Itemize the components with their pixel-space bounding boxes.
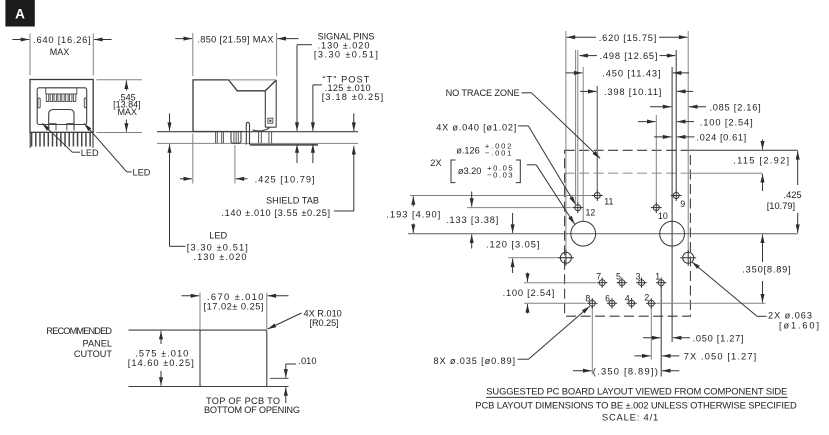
svg-text:.100 [2.54]: .100 [2.54]: [503, 288, 555, 298]
svg-text:.640 [16.26]: .640 [16.26]: [33, 35, 90, 45]
side view: signal pin cup: [231, 132, 241, 144]
layout: mounting hole left: [571, 221, 596, 246]
layout: pads 7 5 3 1: [599, 280, 605, 286]
front view: jack outer body: [30, 80, 93, 133]
side view: latch detail square: [268, 118, 273, 123]
panel cutout: panel surface lines: [129, 329, 201, 331]
svg-text:4: 4: [625, 294, 630, 304]
side view: dim .425 [10.79]: [192, 134, 194, 184]
layout: dim .133 [3.38]: [471, 192, 473, 207]
panel cutout: cutout square: [200, 330, 267, 386]
svg-text:[ø1.60]: [ø1.60]: [779, 321, 819, 331]
svg-text:.024 [0.61]: .024 [0.61]: [696, 133, 746, 143]
svg-text:.398 [10.11]: .398 [10.11]: [604, 87, 661, 97]
svg-text:MAX: MAX: [117, 107, 137, 117]
svg-text:.425 [10.79]: .425 [10.79]: [255, 174, 315, 184]
layout: dim .450 [11.43]: [566, 72, 583, 74]
svg-text:2X ø.063: 2X ø.063: [768, 310, 812, 320]
svg-text:[10.79]: [10.79]: [767, 201, 795, 211]
layout: dim .100 [2.54] pin rows: [527, 273, 529, 282]
panel cutout: dim .670 width: [199, 293, 201, 330]
layout: dim .350 [8.89]: [762, 235, 764, 263]
svg-text:LED: LED: [81, 148, 99, 158]
svg-text:SHIELD TAB: SHIELD TAB: [266, 196, 319, 206]
svg-text:.575 ±.010: .575 ±.010: [135, 348, 188, 358]
svg-text:.450 [11.43]: .450 [11.43]: [602, 69, 660, 79]
svg-text:SUGGESTED PC BOARD LAYOUT VIEW: SUGGESTED PC BOARD LAYOUT VIEWED FROM CO…: [486, 385, 787, 396]
layout: extension verticals: [565, 31, 567, 252]
front view: jack opening: [37, 88, 86, 125]
svg-text:−.001: −.001: [485, 148, 512, 157]
layout: dim .024 [0.61]: [654, 136, 671, 138]
layout: extension horizontals: [410, 195, 592, 197]
layout: dim .050 [1.27]: [643, 337, 660, 339]
svg-text:12: 12: [586, 207, 596, 217]
side view: shield tab hook: [253, 127, 270, 131]
svg-text:.425: .425: [784, 190, 802, 200]
front view: left LED leader and label: [42, 123, 72, 152]
layout: pad 10: [653, 205, 659, 211]
front view: contact comb: [46, 88, 77, 94]
svg-text:.193 [4.90]: .193 [4.90]: [386, 209, 440, 219]
side view: PCB top line: [157, 131, 358, 133]
svg-text:2: 2: [644, 292, 649, 302]
svg-text:PANEL: PANEL: [83, 339, 112, 349]
layout: dim .120 [3.05]: [512, 213, 514, 233]
side view: LED leads through PCB: [216, 132, 224, 144]
svg-text:.085 [2.16]: .085 [2.16]: [709, 102, 760, 112]
svg-text:A: A: [15, 7, 25, 22]
layout: dim .115 [2.92]: [762, 140, 764, 150]
svg-text:NO TRACE ZONE: NO TRACE ZONE: [446, 88, 520, 98]
svg-text:MAX: MAX: [50, 47, 70, 57]
front view: dim .545 [13.84] MAX height: [96, 79, 141, 81]
front view: right LED leader and label: [84, 123, 127, 171]
layout: dim (.350 [8.89]): [573, 370, 592, 372]
layout: no trace zone inner dashed line: [565, 172, 691, 174]
svg-text:[17.02± 0.25]: [17.02± 0.25]: [204, 301, 264, 311]
svg-text:.050 [1.27]: .050 [1.27]: [693, 333, 744, 343]
svg-text:[3.30 ±0.51]: [3.30 ±0.51]: [314, 50, 378, 60]
svg-text:ø3.20: ø3.20: [458, 166, 482, 176]
svg-text:3: 3: [636, 271, 641, 281]
side view: LED protrusion dim and label: [169, 114, 171, 131]
side view: shield pin legs: [259, 132, 272, 144]
svg-text:7X .050 [1.27]: 7X .050 [1.27]: [684, 352, 757, 362]
layout: dim .100 [2.54]: [638, 121, 656, 123]
svg-text:4X ø.040 [ø1.02]: 4X ø.040 [ø1.02]: [436, 123, 516, 133]
svg-text:LED: LED: [209, 230, 227, 240]
svg-text:.130 ±.020: .130 ±.020: [194, 252, 247, 262]
layout: mounting hole right: [660, 221, 685, 246]
svg-text:.100 [2.54]: .100 [2.54]: [700, 117, 753, 127]
sheet zone label A: [5, 0, 34, 27]
svg-text:.850 [21.59] MAX: .850 [21.59] MAX: [197, 34, 273, 44]
panel cutout: .010 offset dim: [270, 377, 289, 379]
layout: dim .085 [2.16]: [650, 106, 671, 108]
svg-text:.140 ±.010 [3.55 ±0.25]: .140 ±.010 [3.55 ±0.25]: [221, 208, 330, 218]
side view: body bottom line: [193, 131, 244, 133]
layout: dim .425 [10.79]: [797, 151, 799, 185]
svg-text:RECOMMENDED: RECOMMENDED: [46, 326, 112, 336]
layout: pad 12: [575, 205, 581, 211]
front view: latch tab: [49, 110, 74, 131]
svg-text:[3.18 ±0.25]: [3.18 ±0.25]: [322, 92, 384, 102]
svg-text:[R0.25]: [R0.25]: [310, 318, 339, 328]
svg-text:.133 [3.38]: .133 [3.38]: [446, 215, 498, 225]
svg-text:9: 9: [680, 199, 685, 209]
panel cutout: dim .575 height: [160, 331, 162, 344]
svg-text:8X ø.035 [ø0.89]: 8X ø.035 [ø0.89]: [434, 356, 516, 366]
svg-text:.498 [12.65]: .498 [12.65]: [600, 51, 658, 61]
svg-text:(.350 [8.89]): (.350 [8.89]): [593, 366, 658, 376]
svg-text:.620 [15.75]: .620 [15.75]: [599, 33, 657, 43]
svg-text:11: 11: [604, 197, 613, 207]
front view: mounting legs comb: [32, 132, 91, 146]
svg-text:10: 10: [658, 211, 668, 221]
svg-text:.120 [3.05]: .120 [3.05]: [486, 240, 540, 250]
svg-text:7: 7: [596, 271, 601, 281]
front view: left LED light pipe: [38, 98, 40, 108]
svg-text:.350[8.89]: .350[8.89]: [742, 265, 790, 275]
svg-text:.010: .010: [298, 356, 316, 366]
svg-text:PCB LAYOUT DIMENSIONS TO BE ±.: PCB LAYOUT DIMENSIONS TO BE ±.002 UNLESS…: [475, 400, 797, 411]
svg-text:CUTOUT: CUTOUT: [74, 349, 112, 359]
svg-text:LED: LED: [133, 167, 151, 177]
layout: dim .620 [15.75]: [567, 36, 596, 38]
layout: pad 11: [594, 193, 600, 199]
layout: dim .498 [12.65]: [579, 55, 597, 57]
layout: dim 7X .050 [1.27]: [634, 355, 650, 357]
front view: dim .640 [16.26] MAX width: [12, 39, 29, 41]
side view: connector body outline: [193, 80, 276, 132]
side view: dim .850 [21.59] MAX: [175, 38, 192, 40]
svg-text:BOTTOM OF OPENING: BOTTOM OF OPENING: [204, 405, 300, 415]
side view: PCB bottom line: [157, 142, 358, 144]
svg-text:ø.126: ø.126: [456, 145, 480, 155]
layout: hole 0.063 left: [560, 252, 571, 263]
panel cutout: 4X R.010 corner radius label and leader: [268, 313, 302, 329]
layout: hole 0.063 right: [683, 252, 694, 263]
layout: no trace zone dashed outline: [565, 150, 691, 316]
svg-text:8: 8: [585, 294, 590, 304]
layout: pads 8 6 4 2: [589, 300, 595, 306]
svg-text:1: 1: [655, 271, 660, 281]
svg-text:[14.60 ±0.25]: [14.60 ±0.25]: [128, 358, 194, 368]
svg-text:5: 5: [616, 271, 621, 281]
svg-text:2X: 2X: [430, 158, 441, 168]
svg-text:SCALE: 4/1: SCALE: 4/1: [602, 411, 658, 422]
layout: pad 9: [673, 193, 679, 199]
side view: shield tab flange: [250, 144, 318, 146]
svg-text:6: 6: [605, 294, 610, 304]
layout: dim .398 [10.11]: [580, 90, 597, 92]
front view: right LED light pipe: [84, 98, 86, 108]
side view: T post: [246, 122, 249, 144]
svg-text:4X R.010: 4X R.010: [304, 308, 342, 318]
layout: dim .193 [4.90]: [412, 196, 414, 206]
svg-text:−0.03: −0.03: [487, 170, 512, 179]
